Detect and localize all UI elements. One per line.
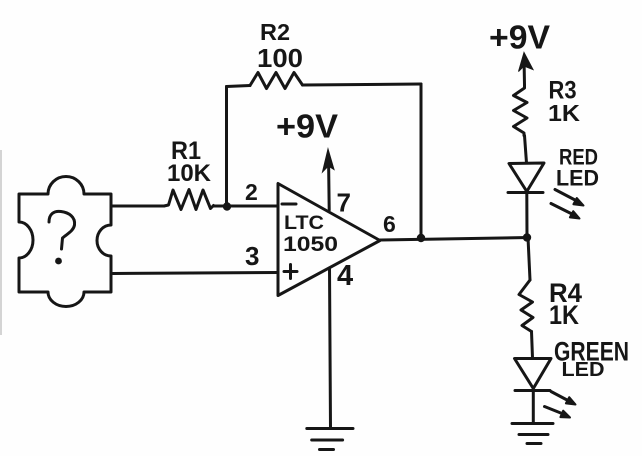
- wire: op-amp output: [380, 238, 529, 241]
- wire: feedback right vertical: [420, 84, 423, 238]
- label R2 100: [257, 19, 303, 73]
- pin label 7: [337, 188, 351, 218]
- resistor R4: [519, 280, 533, 332]
- wire: pin 4 to ground: [330, 268, 331, 428]
- pin label 3: [245, 241, 259, 271]
- op-amp minus sign (pin 2): [282, 203, 296, 206]
- node: LED branch junction: [523, 233, 531, 241]
- wire: green LED to ground: [532, 391, 535, 424]
- green LED emission arrows: [545, 392, 576, 418]
- LED D1 red: [508, 163, 544, 193]
- pin label 2: [245, 179, 258, 205]
- label GREEN LED: [554, 337, 629, 382]
- wire: junction to R4: [528, 238, 530, 281]
- wire: feedback top left segment: [227, 86, 251, 87]
- label LTC 1050: [283, 213, 338, 256]
- svg-text:7: 7: [337, 188, 351, 218]
- wire: red LED to junction: [525, 193, 528, 238]
- svg-text:LTC: LTC: [284, 213, 324, 234]
- +9V supply label (op-amp): [276, 108, 338, 145]
- label R4 1K: [549, 278, 582, 330]
- op-amp U1 LTC1050: [278, 184, 380, 296]
- label R3 1K: [548, 77, 580, 127]
- svg-text:LED: LED: [562, 359, 605, 381]
- label RED LED: [556, 145, 599, 191]
- svg-text:4: 4: [337, 260, 353, 292]
- LED D2 green: [515, 359, 552, 391]
- node: feedback junction on output: [417, 234, 425, 242]
- svg-text:+9V: +9V: [276, 108, 338, 145]
- wire: puzzle piece to R1: [112, 205, 164, 208]
- op-amp plus sign (pin 3): [284, 265, 297, 279]
- resistor R3: [514, 85, 528, 136]
- wire: R1 to op-amp inverting input: [214, 205, 279, 208]
- svg-text:100: 100: [257, 43, 303, 73]
- question mark inside puzzle piece: [49, 211, 75, 264]
- svg-text:+9V: +9V: [489, 19, 550, 56]
- +9V supply arrow to pin 7: [323, 149, 335, 210]
- svg-text:2: 2: [245, 179, 258, 205]
- ground (green LED): [512, 424, 553, 444]
- scan edge artifact: [0, 150, 2, 335]
- svg-text:10K: 10K: [167, 160, 212, 187]
- +9V supply arrow at R3: [519, 53, 534, 86]
- svg-text:6: 6: [383, 211, 396, 237]
- wire: feedback top right segment: [303, 84, 422, 85]
- wire: feedback left vertical: [225, 87, 228, 207]
- pin label 6: [383, 211, 396, 237]
- resistor R2: [250, 73, 303, 89]
- svg-text:1K: 1K: [549, 300, 579, 330]
- label R1 10K: [167, 137, 212, 187]
- svg-text:R2: R2: [260, 19, 290, 45]
- svg-text:3: 3: [245, 241, 259, 271]
- wire: puzzle piece to op-amp non-inverting input: [113, 273, 278, 274]
- resistor R1: [164, 190, 214, 210]
- unknown component (puzzle piece): [19, 177, 111, 307]
- ground (op-amp pin 4): [307, 429, 353, 450]
- svg-text:LED: LED: [556, 166, 599, 191]
- red LED emission arrows: [551, 190, 584, 219]
- node: junction at pin 2: [223, 202, 231, 210]
- wire: R3 to red LED: [525, 136, 527, 164]
- wire: R4 to green LED: [532, 332, 533, 359]
- svg-text:1K: 1K: [548, 100, 580, 126]
- pin label 4: [337, 260, 353, 292]
- +9V supply label (R3 top): [489, 19, 550, 56]
- svg-text:1050: 1050: [283, 233, 338, 256]
